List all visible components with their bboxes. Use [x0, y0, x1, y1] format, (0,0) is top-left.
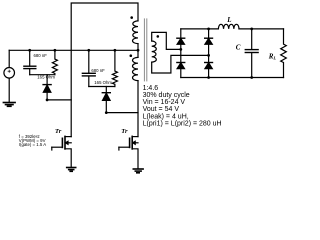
wire primary center tap [137, 44, 139, 58]
transformer T1 primary 1 [133, 21, 139, 44]
svg-text:Tr: Tr [121, 128, 128, 135]
wire snubber1 bottom connector [30, 74, 55, 76]
wire top link Q1 drain to primary top [71, 3, 138, 137]
svg-text:Vout = 54 V: Vout = 54 V [143, 106, 180, 113]
capacitor C1 680nF [29, 50, 31, 66]
wire D2 node to Q2 drain [106, 112, 138, 114]
svg-text:1:4.6: 1:4.6 [143, 85, 159, 92]
svg-text:L(leak) = 4 uH,: L(leak) = 4 uH, [143, 113, 189, 120]
svg-text:165 Ohm: 165 Ohm [37, 75, 55, 80]
polarity dot secondary [157, 35, 160, 38]
resistor R2 165 Ohm [112, 50, 117, 86]
svg-text:680 nF: 680 nF [91, 68, 105, 73]
svg-text:L(pri1) = L(pri2) = 280 uH: L(pri1) = L(pri2) = 280 uH [143, 120, 222, 127]
inductor L [218, 24, 239, 29]
ground under Q2 [133, 169, 143, 173]
wire Vin rail [9, 49, 138, 51]
wire secondary top lead [152, 32, 181, 49]
resistor R1 165 Ohm [52, 50, 57, 74]
resistor RL [281, 29, 287, 78]
ground under V1 [3, 103, 15, 107]
wire bottom rail [181, 77, 284, 79]
diode D5 upper right [208, 29, 210, 38]
wire D1 node to Q1 drain [47, 99, 71, 101]
source V1 [8, 50, 10, 67]
svg-text:Vin = 16-24 V: Vin = 16-24 V [143, 99, 186, 106]
capacitor C [251, 29, 253, 50]
svg-text:C: C [236, 44, 241, 52]
diode D1 [46, 75, 48, 85]
wire snubber2 bottom connector [89, 86, 115, 88]
svg-text:30% duty cycle: 30% duty cycle [143, 92, 190, 99]
diode D4 lower left [177, 62, 185, 64]
polarity dot primary 2 [130, 54, 133, 57]
wire primary bottom to Q2 drain [137, 81, 139, 137]
polarity dot primary 1 [130, 16, 133, 19]
diode D6 lower right [208, 55, 210, 62]
svg-text:I(gate) = 1.5 A: I(gate) = 1.5 A [19, 142, 47, 147]
transformer T1 primary 2 [132, 57, 138, 80]
transformer T1 secondary [152, 41, 157, 62]
svg-text:RL: RL [268, 53, 277, 61]
wire output top rail [239, 28, 284, 30]
svg-text:Tr: Tr [55, 128, 62, 135]
transistor Q1 [52, 146, 63, 148]
diode D2 [105, 87, 107, 93]
wire bridge top rail [181, 28, 219, 30]
transformer core [143, 19, 145, 81]
svg-text:L: L [226, 16, 231, 24]
diode D3 upper left [180, 29, 182, 38]
svg-text:165 Ohm: 165 Ohm [94, 80, 112, 85]
capacitor C2 680nF [88, 50, 90, 73]
wire secondary bottom lead [152, 55, 209, 73]
wire left leg mid to lower diode [180, 49, 182, 62]
transistor Q2 [119, 146, 130, 148]
ground under Q1 [67, 168, 76, 172]
svg-text:680 nF: 680 nF [34, 53, 48, 58]
